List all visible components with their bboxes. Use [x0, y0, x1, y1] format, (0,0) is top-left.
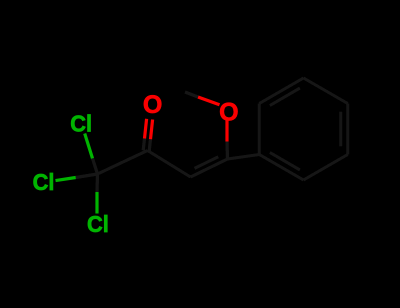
- carbonyl C2=O1 double bond: left line red part: [145, 119, 147, 139]
- carbonyl C2=O1 double bond: right line red part: [151, 120, 153, 140]
- svg-text:Cl: Cl: [33, 169, 55, 195]
- ring inner aromatic line bottom-left: [270, 153, 300, 170]
- bond C1-Cl top : green half: [85, 134, 93, 159]
- bond C1-Cl left : green half: [56, 178, 76, 181]
- bond C1-Cl bottom : green half: [95, 192, 98, 214]
- bond C4-O2 : red half: [225, 120, 228, 142]
- bond C1-Cl bottom : dark half: [95, 174, 99, 192]
- svg-text:Cl: Cl: [70, 111, 92, 137]
- benzene ring C6H5: [259, 78, 347, 180]
- carbonyl C2=O1 double bond: left line dark part: [143, 139, 144, 151]
- ring edge bottom-left Vbot-V5: [259, 155, 303, 181]
- ring inner aromatic line right: [339, 112, 342, 147]
- bond C4-O2 : dark half: [225, 142, 229, 160]
- ring edge bottom-right V3-Vbot: [304, 155, 348, 181]
- svg-text:O: O: [219, 98, 238, 126]
- wire C4 to phenyl ipso carbon: [228, 155, 260, 160]
- svg-text:Cl: Cl: [87, 211, 109, 237]
- ring edge right V2-V3: [346, 104, 349, 155]
- wire C3=C4 main line: [191, 159, 228, 177]
- bond C1-Cl left : dark half: [76, 174, 98, 178]
- bond C1-Cl top : dark half: [93, 158, 98, 174]
- ring edge top-right Vtop-V2: [304, 78, 348, 104]
- wire C3=C4 inner double line: [195, 157, 219, 169]
- bond O2-CH3 : red half: [198, 97, 220, 105]
- carbonyl C2=O1 double bond: right line dark part: [149, 139, 150, 151]
- ring inner aromatic line top-left: [270, 88, 300, 105]
- wire C1-C2 (CCl3 carbon to carbonyl carbon): [98, 151, 148, 175]
- wire C2-C3 (carbonyl carbon to vinyl CH): [148, 151, 191, 178]
- svg-text:O: O: [143, 91, 162, 119]
- ring edge top-left V6-Vtop: [259, 78, 303, 104]
- bond O2-CH3 : dark half: [185, 92, 198, 97]
- ring edge left V5-V6 (ipso side): [258, 104, 261, 155]
